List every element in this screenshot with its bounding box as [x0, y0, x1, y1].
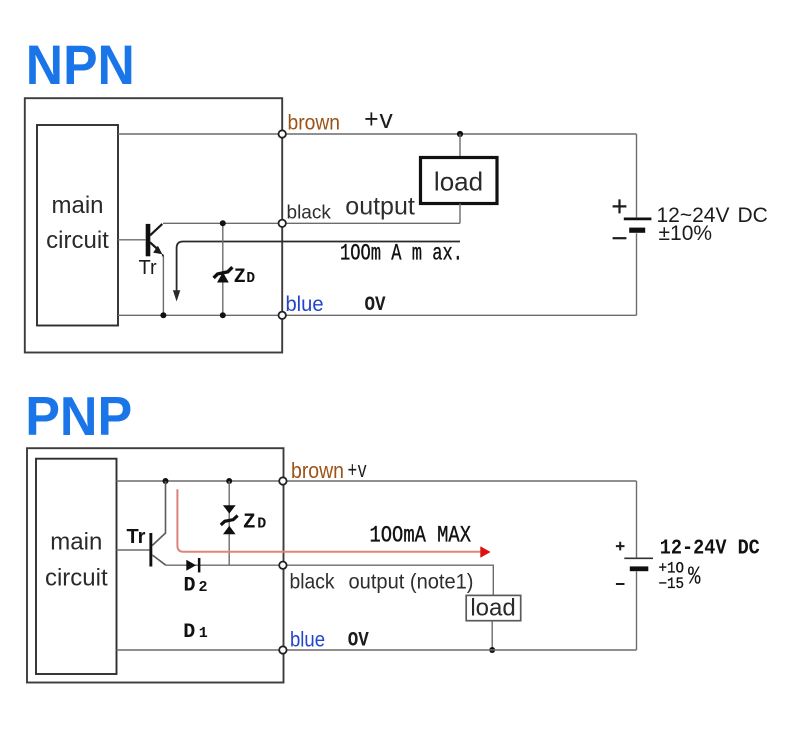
emitter lead PNP — [152, 555, 166, 565]
svg-text:main: main — [51, 192, 103, 219]
wire output black PNP — [166, 565, 494, 595]
svg-text:Tr: Tr — [139, 257, 157, 279]
battery positive plate — [624, 217, 652, 220]
main circuit block PNP — [36, 459, 117, 674]
node collector junction PNP — [163, 478, 169, 484]
minus sign — [613, 237, 627, 239]
transistor Tr PNP bar — [149, 533, 152, 567]
node load-0V junction — [489, 647, 495, 653]
collector lead — [150, 224, 162, 236]
node load top junction — [457, 131, 463, 137]
svg-text:+v: +v — [348, 459, 368, 484]
node zener top — [220, 220, 226, 226]
svg-text:blue: blue — [290, 629, 325, 652]
load box NPN — [421, 158, 498, 204]
red arrowhead — [480, 546, 490, 558]
svg-text:Z: Z — [234, 266, 246, 289]
svg-text:load: load — [434, 167, 483, 197]
battery positive plate PNP — [624, 557, 653, 559]
wire 0V blue NPN — [118, 314, 637, 316]
svg-text:main: main — [50, 529, 102, 556]
svg-text:%: % — [688, 562, 701, 592]
svg-text:circuit: circuit — [45, 565, 108, 592]
svg-text:D: D — [184, 575, 196, 598]
terminal black PNP — [279, 562, 286, 569]
zener top triangle — [223, 505, 236, 513]
terminal brown NPN — [279, 130, 286, 137]
terminal brown PNP — [279, 477, 286, 484]
svg-text:1: 1 — [199, 625, 208, 642]
battery negative plate PNP — [630, 566, 649, 571]
wire load bottom drop PNP — [491, 621, 493, 650]
svg-text:Tr: Tr — [127, 526, 146, 548]
wire +v brown PNP — [117, 480, 637, 482]
wire +V brown NPN — [118, 133, 637, 135]
sensor body outline PNP — [27, 448, 284, 682]
svg-text:−15: −15 — [659, 575, 685, 593]
svg-text:blue: blue — [286, 293, 324, 316]
svg-text:12-24V DC: 12-24V DC — [660, 537, 760, 560]
svg-text:1OOm A m ax.: 1OOm A m ax. — [340, 240, 463, 266]
transistor Tr PNP collector lead — [152, 481, 165, 546]
svg-text:PNP: PNP — [25, 386, 132, 447]
svg-text:output (note1): output (note1) — [349, 569, 474, 593]
node emitter-blue junction — [160, 312, 166, 318]
svg-text:load: load — [470, 594, 515, 621]
terminal black NPN — [279, 220, 286, 227]
zener bar PNP — [221, 516, 238, 525]
base wire — [118, 239, 146, 241]
zener bar — [214, 267, 233, 278]
wire load top drop — [459, 134, 461, 158]
svg-text:D: D — [257, 516, 266, 533]
svg-text:D: D — [183, 621, 195, 644]
node zener top junction PNP — [226, 478, 232, 484]
battery NPN — [636, 134, 638, 217]
emitter down wire — [162, 257, 164, 316]
zener diode ZD NPN — [222, 223, 224, 315]
svg-text:+v: +v — [364, 107, 394, 137]
battery PNP — [636, 481, 638, 557]
svg-text:2: 2 — [199, 579, 208, 596]
wire 0V blue PNP — [117, 649, 637, 651]
red current path PNP — [177, 489, 480, 552]
plus sign PNP — [616, 542, 625, 551]
wire load bottom drop — [459, 204, 461, 224]
sensor body outline NPN — [25, 98, 282, 352]
svg-text:±10%: ±10% — [659, 222, 713, 245]
svg-text:OV: OV — [365, 294, 386, 317]
svg-text:brown: brown — [288, 111, 341, 134]
zener triangle — [217, 272, 229, 282]
zener bottom triangle — [223, 526, 236, 535]
svg-text:OV: OV — [348, 630, 369, 653]
minus sign PNP — [616, 583, 625, 585]
svg-text:brown: brown — [291, 458, 344, 483]
svg-text:output: output — [345, 192, 415, 220]
svg-text:NPN: NPN — [26, 34, 135, 96]
base wire PNP — [117, 549, 150, 551]
wire output black NPN — [163, 222, 460, 224]
battery negative plate — [629, 228, 645, 233]
node zener-blue junction — [220, 312, 226, 318]
svg-text:DC: DC — [738, 204, 768, 227]
svg-text:black: black — [287, 203, 332, 224]
svg-text:D: D — [246, 271, 255, 287]
terminal blue PNP — [279, 646, 286, 653]
diode D2 — [186, 560, 196, 571]
svg-text:1OOmA MAX: 1OOmA MAX — [370, 522, 472, 548]
terminal blue NPN — [279, 312, 286, 319]
emitter lead with arrow — [150, 242, 159, 250]
svg-text:black: black — [290, 570, 335, 593]
transistor Tr NPN — [146, 224, 151, 256]
zener diode ZD PNP — [228, 481, 230, 565]
plus sign — [613, 199, 627, 213]
main circuit block NPN — [37, 125, 118, 326]
load box PNP — [466, 595, 521, 620]
current arrow line NPN — [177, 242, 460, 292]
svg-text:circuit: circuit — [46, 227, 109, 254]
svg-text:Z: Z — [243, 512, 256, 535]
